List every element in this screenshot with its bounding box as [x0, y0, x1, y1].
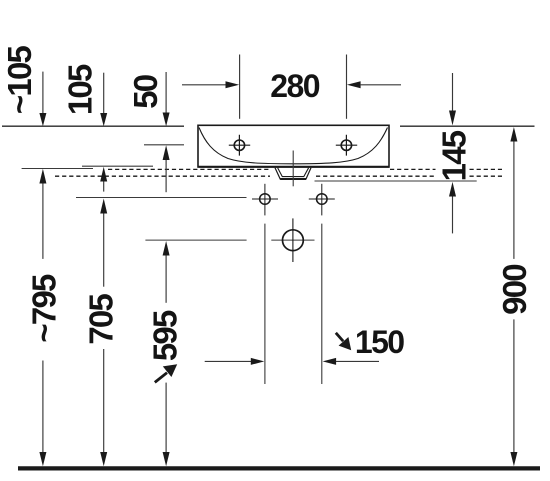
reference line 50 lower bound — [144, 144, 184, 146]
dim 145 upper arrow — [449, 73, 456, 125]
dim 150 right arrow — [323, 358, 379, 365]
svg-text:280: 280 — [270, 68, 319, 104]
dashed counter line B — [55, 175, 502, 177]
dim ~795 upper arrow — [39, 169, 46, 259]
basin body outline — [198, 125, 389, 167]
dim 595 oblique arrow — [155, 364, 177, 382]
svg-text:595: 595 — [147, 310, 184, 361]
wire rim reference line right — [400, 125, 535, 127]
dim 280 extension line left — [239, 55, 241, 119]
tap hole left — [229, 135, 250, 156]
dim 595 lower shaft and floor arrow — [163, 383, 170, 467]
drain hole — [283, 218, 304, 262]
reference line 595 upper bound — [145, 239, 314, 241]
dim 705 lower shaft and floor arrow — [100, 349, 107, 466]
dim 280 extension line right — [346, 55, 348, 119]
fixing hole centre line right extended — [321, 224, 323, 384]
centre line of basin — [292, 151, 294, 187]
svg-text:105: 105 — [62, 64, 99, 115]
svg-text:145: 145 — [436, 130, 473, 181]
dim 280 right arrow — [347, 81, 401, 88]
svg-text:~105: ~105 — [1, 45, 38, 114]
tap hole right — [336, 135, 357, 156]
wire rim reference line left — [2, 125, 184, 127]
dim 145 lower arrow — [449, 182, 456, 234]
svg-text:900: 900 — [496, 265, 533, 315]
dim 50 lower arrow — [163, 145, 170, 192]
reference line 105 lower bound — [82, 165, 153, 167]
dim 150 oblique arrow — [336, 333, 351, 351]
dim 105 lower arrow — [100, 167, 107, 192]
dim ~105 column shaft top — [39, 72, 46, 127]
dim 105 column shaft top — [100, 73, 107, 127]
dim 900 lower shaft and floor arrow — [510, 319, 517, 466]
siphon trapezoid — [275, 168, 311, 179]
svg-text:150: 150 — [355, 324, 404, 360]
fixing hole right — [309, 184, 335, 216]
svg-text:705: 705 — [83, 294, 120, 345]
dim 50 column shaft top — [163, 72, 170, 126]
dim 150 left arrow — [205, 358, 265, 365]
svg-text:50: 50 — [127, 75, 164, 109]
dim ~795 lower shaft and floor arrow — [39, 361, 46, 467]
dim 595 upper arrow — [163, 241, 170, 303]
dim 705 upper arrow — [100, 199, 107, 287]
fixing hole left — [252, 184, 278, 216]
svg-text:~795: ~795 — [26, 274, 63, 343]
reference line 145 lower bound — [315, 180, 477, 182]
reference line ~795 upper bound — [22, 168, 93, 170]
fixing hole centre line left extended — [264, 224, 266, 384]
floor line — [18, 466, 540, 470]
dashed counter line A — [108, 168, 502, 170]
dim 280 left arrow — [182, 81, 239, 88]
reference line 705 upper bound — [76, 197, 247, 199]
dim 900 upper arrow — [510, 127, 517, 259]
